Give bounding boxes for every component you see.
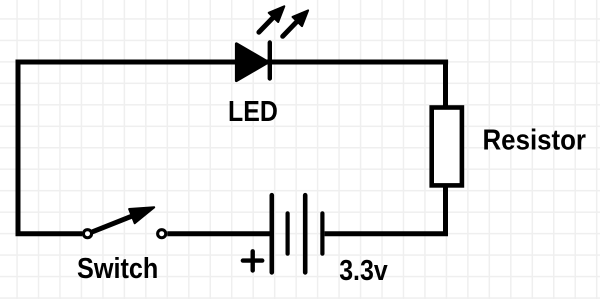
battery plus polarity mark <box>243 251 262 270</box>
wire bottom-right rail (battery to resistor bottom) <box>325 185 446 234</box>
battery cell plate short 1 (negative) <box>286 213 290 253</box>
switch lever arrowhead <box>129 207 154 223</box>
label Switch <box>77 253 158 285</box>
label 3.3v (battery value) <box>339 255 388 287</box>
wire top-left loop (top rail, left rail, bottom-left rail) <box>18 62 448 234</box>
LED emission arrow 2 (shaft and head) <box>283 10 308 36</box>
svg-text:Resistor: Resistor <box>483 125 587 157</box>
svg-text:3.3v: 3.3v <box>339 255 388 287</box>
battery cell plate short 2 (negative) <box>320 213 324 253</box>
wire switch to battery <box>167 231 270 236</box>
LED emission arrow 1 (shaft and head) <box>259 6 284 32</box>
LED diode triangle (anode) <box>236 44 268 81</box>
svg-text:LED: LED <box>228 96 278 128</box>
label LED <box>228 96 278 128</box>
switch throw terminal (right circle) <box>158 230 166 238</box>
resistor body (box) <box>432 108 462 186</box>
wire right rail top (top rail to resistor) <box>443 62 448 109</box>
battery cell plate long 1 (positive) <box>269 195 274 272</box>
label Resistor <box>483 125 587 157</box>
switch pole terminal (left circle) <box>83 230 91 238</box>
svg-text:Switch: Switch <box>77 253 158 285</box>
switch lever arm <box>89 215 134 233</box>
battery cell plate long 2 (positive) <box>303 195 308 272</box>
LED cathode bar <box>268 43 272 79</box>
